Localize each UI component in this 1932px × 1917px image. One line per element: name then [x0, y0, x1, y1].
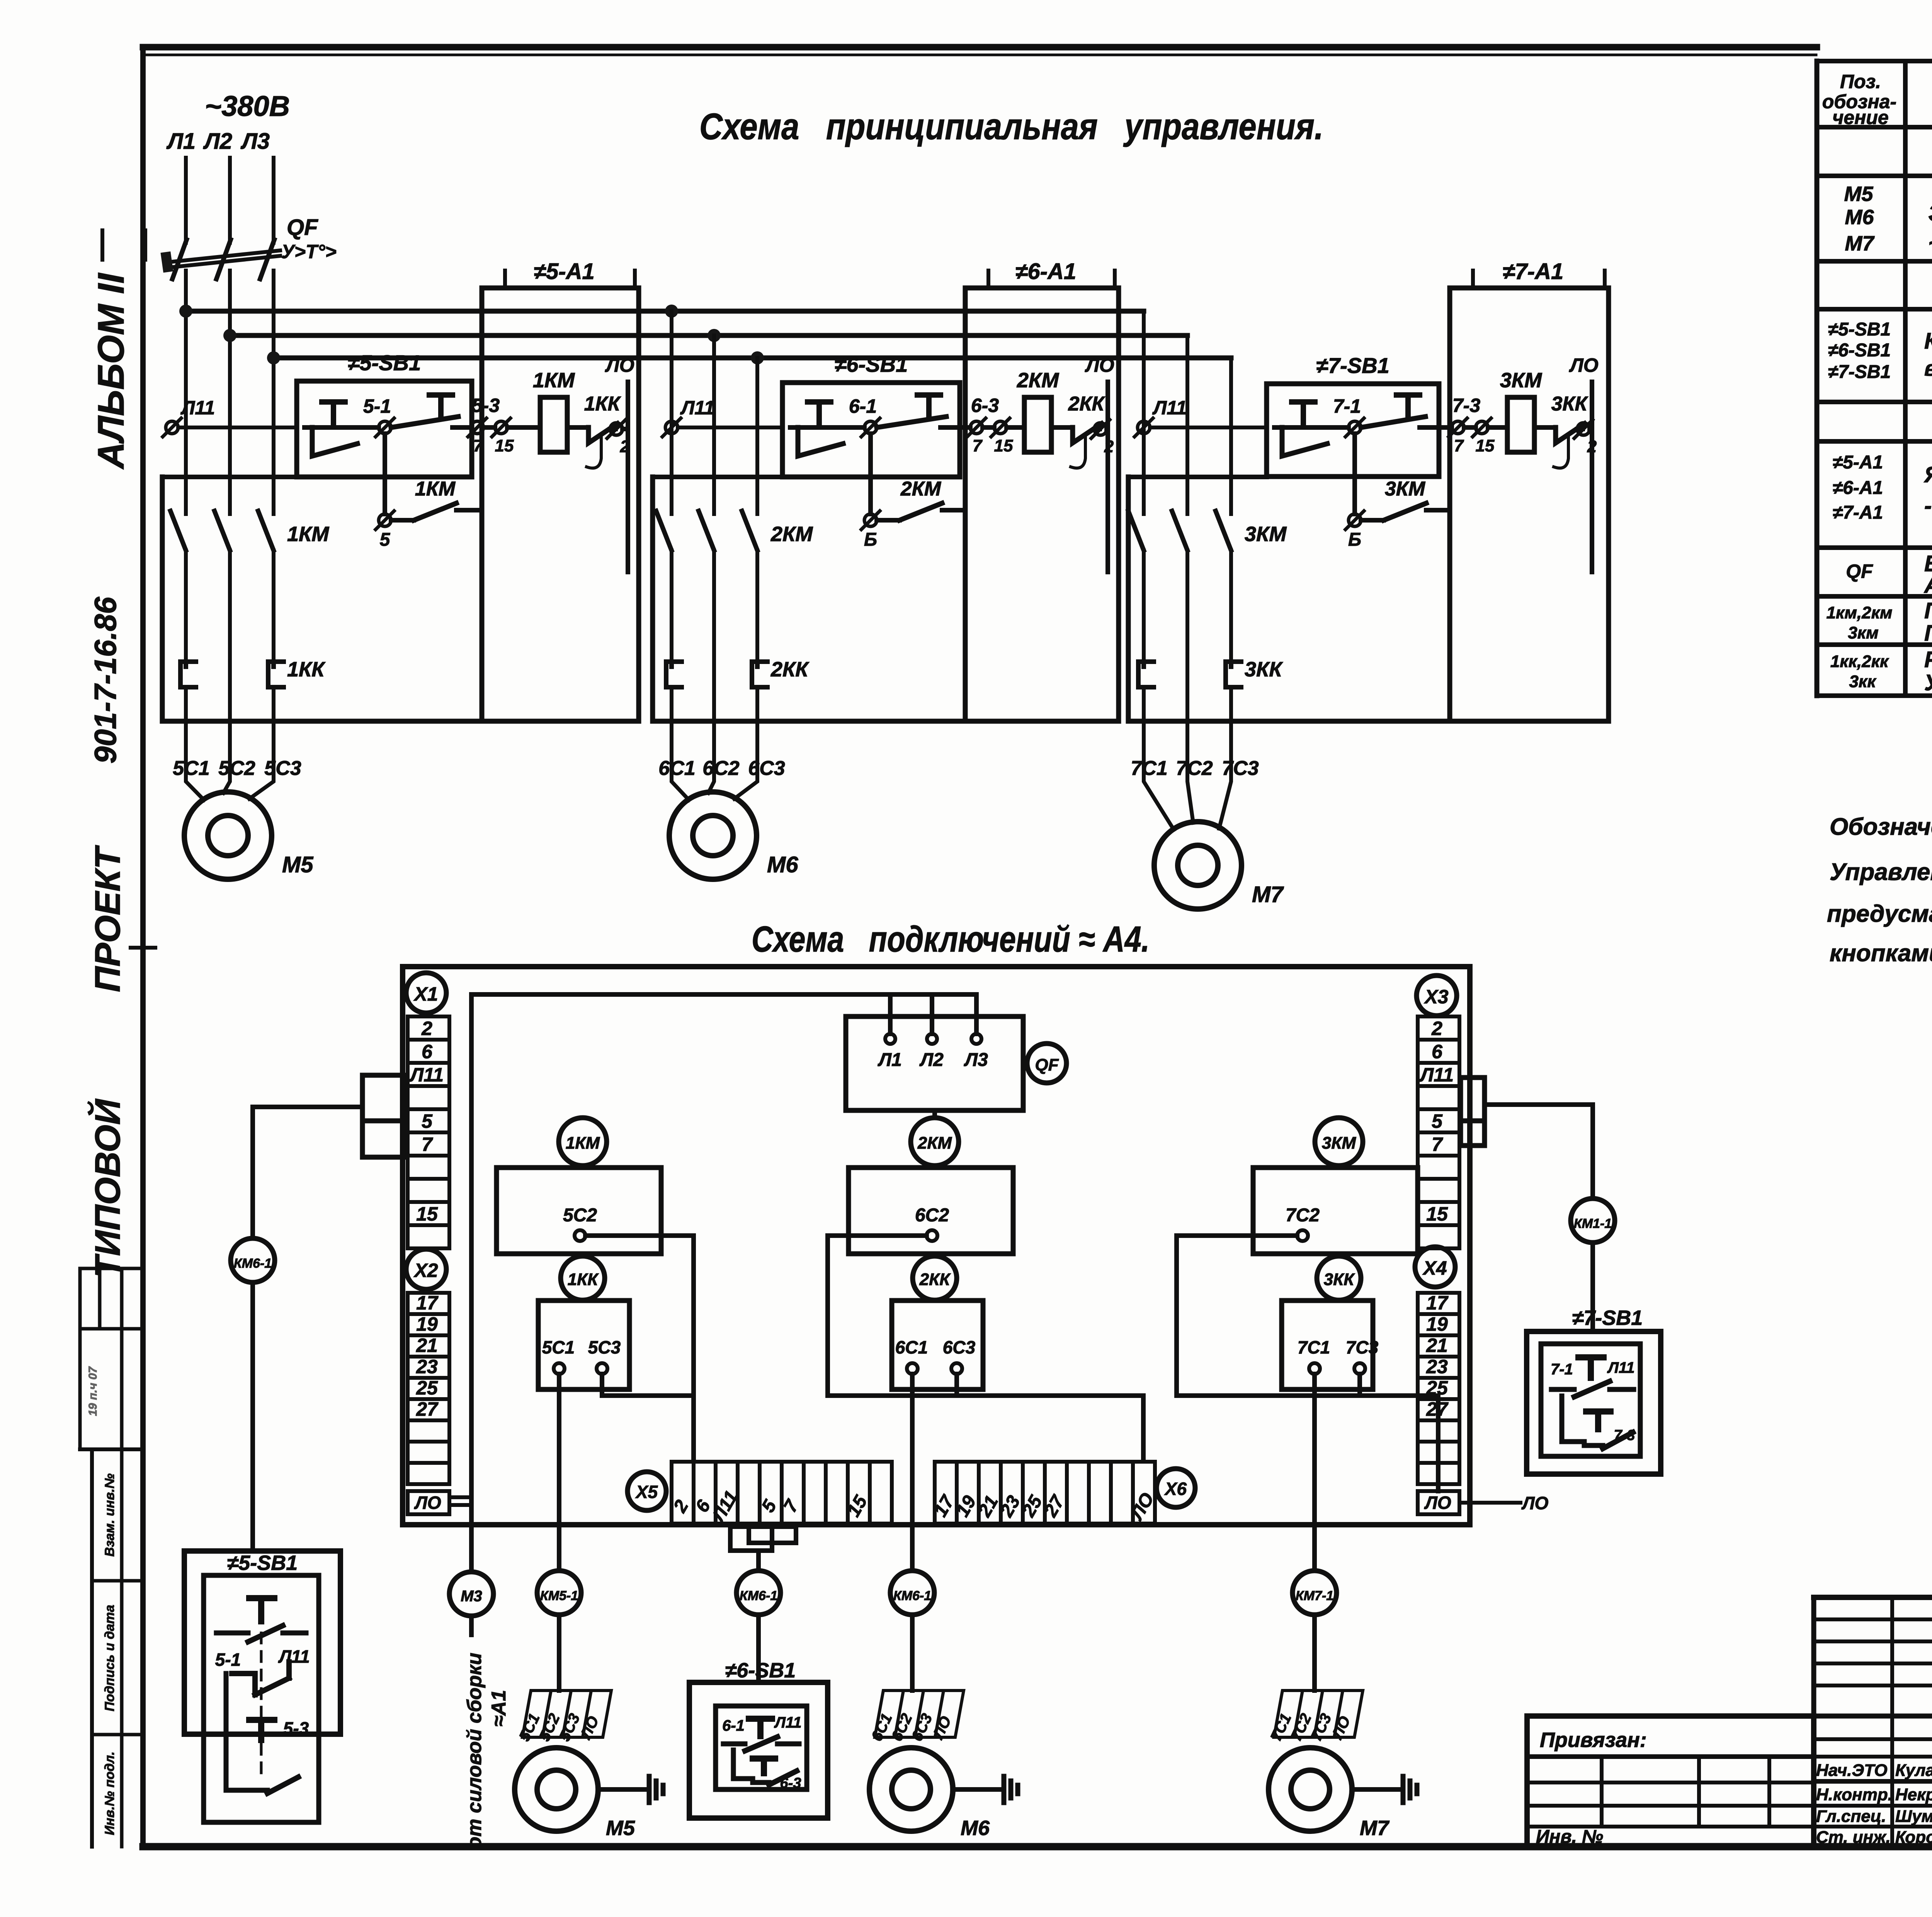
- svg-text:Ящик управления ≈ А4 тип ЯУ512: Ящик управления ≈ А4 тип ЯУ5122-: [1923, 462, 1932, 487]
- svg-text:25: 25: [416, 1377, 438, 1399]
- svg-text:7С1: 7С1: [1131, 757, 1167, 780]
- svg-text:1КМ: 1КМ: [287, 523, 329, 546]
- svg-text:Л11: Л11: [180, 397, 215, 419]
- terminals 5-3: [468, 418, 510, 437]
- bus L3: [274, 356, 1231, 361]
- svg-text:ПРОЕКТ: ПРОЕКТ: [88, 845, 128, 992]
- terminal 2: [1574, 420, 1593, 438]
- svg-text:ЛО: ЛО: [1085, 354, 1114, 376]
- svg-text:1КК: 1КК: [568, 1270, 599, 1289]
- svg-text:Поз.: Поз.: [1840, 71, 1881, 92]
- svg-text:7-3: 7-3: [1452, 395, 1480, 416]
- svg-text:Л11: Л11: [409, 1064, 444, 1086]
- svg-text:Пускатель магнитный: Пускатель магнитный: [1924, 598, 1932, 623]
- svg-text:7: 7: [1432, 1134, 1443, 1155]
- button station ≠7-SB1 (connection diagram): [1527, 1331, 1661, 1474]
- contactor main contacts 2КМ: [656, 511, 757, 662]
- contactor box 2КМ: [849, 1168, 1013, 1254]
- svg-text:~380В 0,25 кВт: ~380В 0,25 кВт: [1928, 230, 1932, 257]
- svg-text:КМ7-1: КМ7-1: [1296, 1588, 1333, 1603]
- spec row КК: [1830, 647, 1932, 695]
- wire pole1 group6 from bus: [670, 311, 673, 514]
- svg-text:КМ5-1: КМ5-1: [540, 1588, 578, 1603]
- connector bracket under X5: [730, 1527, 796, 1551]
- svg-text:КМ6-1: КМ6-1: [740, 1588, 777, 1603]
- svg-text:5С1: 5С1: [173, 757, 209, 780]
- svg-text:7С3: 7С3: [1222, 757, 1259, 780]
- svg-text:Х6: Х6: [1164, 1479, 1187, 1499]
- start button group7: [1361, 395, 1434, 427]
- svg-text:6С1: 6С1: [895, 1337, 928, 1357]
- svg-text:~380В: ~380В: [205, 90, 290, 122]
- svg-text:Нач.ЭТО: Нач.ЭТО: [1816, 1761, 1888, 1780]
- terminal 2: [607, 420, 628, 438]
- svg-text:5: 5: [422, 1110, 433, 1132]
- svg-text:≠6-SВ1: ≠6-SВ1: [725, 1659, 796, 1682]
- wire 7-1 to aux: [1352, 434, 1357, 514]
- breaker box QF (connection diagram): [846, 1016, 1023, 1110]
- title block: [1814, 1597, 1932, 1847]
- contactor main contacts 3КМ: [1128, 511, 1231, 662]
- svg-text:Б: Б: [1348, 529, 1361, 550]
- wire 5-1 to aux: [383, 434, 387, 514]
- connector plug X1: [362, 1075, 406, 1157]
- ground symbol М6: [953, 1776, 1018, 1803]
- marker 1КМ circle: [559, 1118, 607, 1166]
- svg-text:2КК: 2КК: [1068, 393, 1105, 415]
- svg-text:Схема принципиальная управ: Схема принципиальная управления.: [699, 106, 1323, 147]
- svg-text:КМ6-1: КМ6-1: [234, 1256, 272, 1271]
- node bus2-g6: [707, 329, 721, 342]
- spec row М5 М6 М7: [1844, 182, 1932, 257]
- cabinet outline ≠6-А1: [653, 288, 1119, 721]
- svg-text:ЛО: ЛО: [1521, 1493, 1549, 1513]
- aux contact 2КМ: [877, 503, 965, 520]
- svg-text:2: 2: [1431, 1018, 1442, 1039]
- svg-text:Подпись и дата: Подпись и дата: [102, 1605, 117, 1711]
- contactor main contacts 1КМ: [170, 511, 274, 662]
- wire КМ6-1 to 6-SB1: [756, 1615, 761, 1682]
- svg-text:Л2: Л2: [203, 129, 232, 154]
- button station box ≠5-SB1: [297, 381, 472, 477]
- svg-text:5С2: 5С2: [563, 1205, 597, 1226]
- svg-text:Ст. инж.: Ст. инж.: [1816, 1828, 1891, 1847]
- margin text ALBOM II: [90, 230, 145, 470]
- connector plug X3: [1461, 1078, 1485, 1146]
- svg-text:5С3: 5С3: [264, 757, 301, 780]
- cable marker КМ5-1: [537, 1571, 581, 1615]
- svg-text:QF: QF: [1846, 560, 1873, 582]
- svg-text:≠5-А1: ≠5-А1: [534, 259, 595, 284]
- svg-text:≠7-А1: ≠7-А1: [1503, 259, 1564, 284]
- svg-text:Схема подключений ≈ А4.: Схема подключений ≈ А4.: [752, 919, 1150, 959]
- svg-text:7-1: 7-1: [1551, 1361, 1573, 1378]
- wire 5С1 to КМ5-1 to М5: [557, 1374, 561, 1691]
- svg-text:6С2: 6С2: [915, 1205, 949, 1226]
- svg-text:3км: 3км: [1848, 623, 1878, 642]
- svg-text:Л3: Л3: [964, 1050, 988, 1070]
- control wire group6: [678, 426, 782, 429]
- svg-text:≠6-А1: ≠6-А1: [1833, 478, 1883, 498]
- svg-text:6: 6: [422, 1041, 433, 1062]
- start button group5: [391, 395, 467, 427]
- revision table grid: [1814, 1597, 1932, 1847]
- staff signatures: [1816, 1761, 1932, 1847]
- stop button 7 (conn): [1551, 1357, 1634, 1397]
- centering mark left: [131, 946, 155, 950]
- terminal strip X4: [1418, 1293, 1459, 1314]
- aux contact 1КМ: [391, 503, 482, 520]
- wire pole3 group7 from bus: [1229, 358, 1233, 514]
- spec row КМ: [1827, 598, 1932, 646]
- svg-text:АЛЬБОМ II: АЛЬБОМ II: [90, 272, 132, 470]
- svg-text:Реле тепловое ТРН-10;: Реле тепловое ТРН-10;: [1924, 647, 1932, 672]
- svg-text:5: 5: [1432, 1110, 1443, 1132]
- svg-text:Л1: Л1: [166, 129, 196, 154]
- svg-text:Л2: Л2: [919, 1050, 944, 1070]
- svg-text:Л11: Л11: [1607, 1359, 1634, 1376]
- thermal contact 3КК: [1534, 424, 1585, 468]
- wire pole2 group7 from bus: [1185, 335, 1189, 514]
- margin text TIPOVOY PROEKT 901-7-16.86: [87, 597, 128, 1278]
- cabinet А4 outline (connection diagram): [403, 967, 1470, 1525]
- svg-text:2КК: 2КК: [770, 658, 810, 681]
- terminal strip X3: [1418, 1016, 1459, 1040]
- svg-text:6С1: 6С1: [658, 757, 695, 780]
- svg-text:1КМ: 1КМ: [566, 1134, 600, 1153]
- terminal strip X6 circle: [1156, 1469, 1195, 1507]
- node bus1-L1: [179, 305, 192, 318]
- terminal 5С3: [588, 1337, 621, 1374]
- svg-text:Х2: Х2: [413, 1260, 438, 1281]
- svg-text:Шумилов: Шумилов: [1895, 1807, 1932, 1826]
- terminal ЛО cell right: [1418, 1491, 1459, 1514]
- svg-text:≠7-SВ1: ≠7-SВ1: [1572, 1306, 1643, 1330]
- svg-text:чение: чение: [1832, 107, 1889, 128]
- wire X3 plug to КМ7-1 right: [1485, 1105, 1593, 1199]
- wire L3 to bus: [272, 271, 276, 514]
- wire QF box to 2КМ: [932, 1110, 937, 1118]
- wire below М3: [469, 1616, 474, 1635]
- svg-text:21: 21: [1426, 1335, 1448, 1356]
- bottom contact 5 (conn): [226, 1674, 298, 1793]
- terminal strip X2: [408, 1293, 449, 1314]
- svg-text:7: 7: [422, 1134, 433, 1155]
- svg-text:7: 7: [973, 436, 983, 455]
- svg-text:7-3: 7-3: [1614, 1427, 1635, 1444]
- cable marker КМ6-1 (motor): [890, 1571, 934, 1615]
- terminal Л11 group6: [662, 418, 681, 437]
- bottom contact 6 (conn): [733, 1750, 797, 1785]
- wire КМ6-1 to 5-SB1: [250, 1282, 255, 1551]
- motor leads 5С1-5С3: [186, 758, 274, 800]
- terminals 7-3: [1439, 418, 1491, 437]
- contactor box 3КМ: [1253, 1168, 1418, 1254]
- svg-text:1КМ: 1КМ: [415, 478, 456, 500]
- motor М5 (connection diagram): [515, 1748, 598, 1831]
- motor М6 (connection diagram): [869, 1748, 953, 1831]
- wire feed to QF terminals: [471, 994, 976, 1034]
- svg-text:3КМ: 3КМ: [1245, 523, 1287, 546]
- wire bracket to КМ6-1 mid: [756, 1551, 761, 1571]
- svg-text:5С1: 5С1: [542, 1337, 575, 1357]
- thermal relay heaters 3КК: [1138, 662, 1241, 758]
- svg-text:М6: М6: [961, 1817, 990, 1840]
- left margin table: [80, 1268, 143, 1847]
- wire 5С2 to X5: [585, 1236, 694, 1461]
- motor М5: [184, 792, 272, 879]
- terminal 6С2: [915, 1205, 949, 1241]
- wire feed down to М3: [469, 994, 474, 1572]
- svg-text:М5: М5: [282, 852, 313, 877]
- svg-text:1кк,2кк: 1кк,2кк: [1830, 652, 1889, 671]
- terminal Б group6: [861, 511, 880, 529]
- terminal Л11 group7: [1134, 418, 1153, 437]
- svg-text:3КМ: 3КМ: [1385, 478, 1426, 500]
- svg-text:6-3: 6-3: [971, 395, 999, 416]
- svg-text:1КК: 1КК: [584, 393, 621, 415]
- svg-text:АП50-3МТ, Ур=4А: АП50-3МТ, Ур=4А: [1923, 573, 1932, 598]
- svg-text:6-3: 6-3: [780, 1775, 801, 1791]
- ground symbol М7: [1352, 1776, 1417, 1803]
- thermal contact 2КК: [1051, 424, 1102, 468]
- motor М6: [669, 792, 757, 879]
- thermal relay heaters 1КК: [180, 662, 284, 758]
- button station ≠6-SB1 (connection diagram): [689, 1682, 828, 1818]
- svg-text:6С3: 6С3: [943, 1337, 976, 1357]
- spec row QF: [1846, 551, 1932, 598]
- svg-text:≈А1: ≈А1: [488, 1690, 510, 1726]
- svg-text:Управление электродвигателя: Управление электродвигателями: [1830, 859, 1932, 885]
- svg-text:Кулагин: Кулагин: [1895, 1761, 1932, 1780]
- svg-text:Л11: Л11: [1419, 1064, 1454, 1086]
- svg-text:23: 23: [1426, 1356, 1448, 1377]
- stop button 5 (conn): [216, 1598, 306, 1642]
- net ЛО group5: [626, 382, 630, 572]
- svg-text:17: 17: [416, 1292, 439, 1314]
- wire pole3 group6 from bus: [755, 358, 759, 514]
- svg-text:6С2: 6С2: [702, 757, 739, 780]
- svg-text:5С3: 5С3: [588, 1337, 621, 1357]
- svg-text:вая, надписи„пуск“,„стоп“ПКЕ 2: вая, надписи„пуск“,„стоп“ПКЕ 222-2У3: [1924, 356, 1932, 380]
- control wire group5: [178, 426, 297, 429]
- terminal 6С1: [895, 1337, 928, 1374]
- wire phase L2 drop: [228, 158, 232, 243]
- svg-text:≠6-А1: ≠6-А1: [1015, 259, 1077, 284]
- svg-text:М6: М6: [1845, 206, 1874, 229]
- svg-text:Электродвигатель 4АЛ 63А4: Электродвигатель 4АЛ 63А4: [1928, 200, 1932, 226]
- cable marker КМ6-1 (left): [231, 1238, 275, 1282]
- terminal strip X6: [930, 1462, 1158, 1524]
- node bus3-g6: [751, 351, 764, 364]
- spec header: [1822, 71, 1932, 128]
- privyazan box: [1527, 1716, 1814, 1847]
- wire 7С3 join: [1357, 1374, 1362, 1396]
- svg-text:5: 5: [380, 529, 391, 550]
- svg-text:2КМ: 2КМ: [1017, 369, 1059, 392]
- spec row SB1: [1828, 319, 1932, 382]
- contact 6-1: [842, 418, 880, 437]
- svg-text:3КК: 3КК: [1245, 658, 1283, 681]
- terminal box М5: [516, 1691, 611, 1744]
- wire pole1 group7 from bus: [1142, 311, 1146, 514]
- thermal relay box 1КК: [538, 1301, 629, 1389]
- terminal Л1: [878, 1034, 902, 1070]
- node bus1-g6: [665, 305, 678, 318]
- terminal strip X2 connector circle: [406, 1249, 446, 1289]
- terminal 7С1: [1298, 1337, 1330, 1374]
- svg-text:Л11: Л11: [278, 1646, 310, 1667]
- svg-text:Некрасов: Некрасов: [1895, 1785, 1932, 1804]
- wire L1 to bus: [184, 271, 188, 514]
- thermal relay box 3КК: [1282, 1301, 1373, 1389]
- terminal 5С1: [542, 1337, 575, 1374]
- motor leads 7С1-7С3: [1144, 758, 1231, 830]
- svg-text:М5: М5: [606, 1817, 635, 1840]
- start button 7 (conn): [1586, 1411, 1611, 1429]
- cabinet outline ≠5-А1: [162, 288, 639, 721]
- cable marker КМ7-1: [1293, 1571, 1337, 1615]
- wire pole2 group6 from bus: [712, 335, 716, 514]
- svg-text:Обозначения по ГОСТ 2.710-8: Обозначения по ГОСТ 2.710-81.: [1830, 814, 1932, 840]
- stop button group7: [1274, 402, 1327, 456]
- svg-text:15: 15: [495, 436, 514, 455]
- label ≠6-А1: [988, 259, 1115, 286]
- control wire group7: [1150, 426, 1267, 429]
- svg-text:Привязан:: Привязан:: [1540, 1728, 1647, 1752]
- svg-text:≠7-SВ1: ≠7-SВ1: [1316, 353, 1389, 378]
- bus L2: [230, 333, 1187, 338]
- svg-text:5-3: 5-3: [472, 395, 500, 416]
- svg-text:≠5-SВ1: ≠5-SВ1: [348, 351, 421, 375]
- motor М7: [1154, 822, 1242, 909]
- svg-text:Х4: Х4: [1422, 1257, 1447, 1279]
- svg-text:15: 15: [994, 436, 1013, 455]
- svg-text:6: 6: [1432, 1041, 1443, 1062]
- svg-text:7-1: 7-1: [1333, 395, 1361, 417]
- wire 6С3 join: [954, 1374, 959, 1396]
- svg-text:Гл.спец.: Гл.спец.: [1816, 1807, 1886, 1826]
- svg-text:≠7-А1: ≠7-А1: [1833, 502, 1883, 523]
- svg-text:QF: QF: [287, 215, 318, 240]
- svg-text:6-1: 6-1: [849, 395, 877, 417]
- svg-text:М5: М5: [1844, 182, 1873, 206]
- svg-text:2КМ: 2КМ: [917, 1134, 952, 1153]
- terminal Б group7: [1345, 511, 1364, 529]
- contactor coil 2КМ: [1007, 397, 1051, 452]
- svg-text:ПМЕ-111: ПМЕ-111: [1924, 621, 1932, 646]
- svg-text:Н.контр.: Н.контр.: [1816, 1785, 1893, 1804]
- svg-text:ЛО: ЛО: [1569, 354, 1598, 376]
- svg-text:Ун.э. = 1,25А: Ун.э. = 1,25А: [1924, 670, 1932, 695]
- terminal Л3: [964, 1034, 988, 1070]
- svg-text:Королёва: Королёва: [1895, 1828, 1932, 1847]
- svg-text:М6: М6: [767, 852, 798, 877]
- svg-text:-0362Д Ур=4А Ун=1,25А: -0362Д Ур=4А Ун=1,25А: [1924, 493, 1932, 518]
- svg-text:Л3: Л3: [240, 129, 270, 154]
- bus L1: [186, 309, 1144, 314]
- terminal strip X5: [669, 1462, 892, 1526]
- spec row A1: [1833, 452, 1932, 523]
- marker 1КК circle: [561, 1256, 605, 1300]
- svg-text:5-3: 5-3: [283, 1718, 309, 1738]
- svg-text:ТИПОВОЙ: ТИПОВОЙ: [87, 1098, 128, 1278]
- wire 6С2 route: [828, 1236, 1143, 1461]
- svg-text:5-1: 5-1: [363, 395, 391, 417]
- terminal box М6: [868, 1691, 964, 1744]
- contact 7-1: [1327, 418, 1364, 437]
- marker 3КК circle: [1317, 1256, 1361, 1300]
- svg-text:6С3: 6С3: [748, 757, 785, 780]
- contactor coil 3КМ: [1488, 397, 1534, 452]
- svg-text:Х1: Х1: [413, 983, 438, 1005]
- wire X1 plug to КМ6-1: [253, 1107, 362, 1238]
- terminal Л11 group5: [163, 418, 181, 437]
- svg-text:≠5-SВ1: ≠5-SВ1: [1828, 319, 1891, 340]
- wire L2 to bus: [228, 271, 232, 514]
- svg-text:6-1: 6-1: [722, 1717, 745, 1734]
- svg-text:7С1: 7С1: [1298, 1337, 1330, 1357]
- start button 6 (conn): [753, 1759, 775, 1773]
- svg-text:901-7-16.86: 901-7-16.86: [88, 597, 122, 764]
- svg-text:М7: М7: [1360, 1817, 1390, 1840]
- svg-text:от силовой сборки: от силовой сборки: [463, 1653, 486, 1849]
- terminal 5 group5: [376, 511, 394, 529]
- svg-text:3КК: 3КК: [1551, 393, 1588, 415]
- aux contact 3КМ: [1361, 503, 1450, 520]
- circuit breaker QF: [161, 240, 280, 279]
- wire phase L1 drop: [184, 158, 188, 243]
- label ≠7-А1: [1473, 259, 1605, 286]
- wire 5С3 join: [602, 1374, 694, 1396]
- svg-text:КМ6-1: КМ6-1: [893, 1588, 931, 1603]
- stop button group5: [304, 402, 357, 456]
- terminal strip X1: [408, 1016, 449, 1040]
- svg-text:2КК: 2КК: [919, 1270, 951, 1289]
- contact 5-1: [357, 418, 394, 437]
- net ЛО group6: [1105, 382, 1110, 572]
- svg-text:15: 15: [1476, 436, 1495, 455]
- svg-text:QF: QF: [1035, 1056, 1059, 1074]
- svg-text:7С2: 7С2: [1176, 757, 1213, 780]
- svg-text:Х3: Х3: [1423, 986, 1448, 1008]
- stop button group6: [790, 402, 843, 456]
- cable marker КМ1-1 (right): [1571, 1199, 1615, 1243]
- svg-text:15: 15: [1426, 1203, 1448, 1225]
- marker 3КМ circle: [1315, 1118, 1363, 1166]
- terminal strip X5 circle: [628, 1472, 666, 1510]
- thermal relay box 2КК: [892, 1301, 983, 1389]
- svg-text:5С2: 5С2: [218, 757, 255, 780]
- terminal Л2: [919, 1034, 944, 1070]
- terminal 7С2: [1286, 1205, 1320, 1241]
- node bus3-L3: [267, 351, 280, 364]
- interlock contact 5 (conn): [232, 1662, 289, 1695]
- svg-text:ЛО: ЛО: [605, 354, 634, 376]
- svg-text:Л11: Л11: [774, 1714, 801, 1731]
- svg-text:Кнопка управления двухштифто: Кнопка управления двухштифто-: [1924, 329, 1932, 354]
- svg-text:Л11: Л11: [1152, 397, 1187, 419]
- svg-text:19: 19: [1426, 1313, 1448, 1335]
- svg-text:7: 7: [1454, 436, 1464, 455]
- svg-text:3КМ: 3КМ: [1322, 1134, 1357, 1153]
- start button group6: [877, 395, 955, 427]
- svg-text:М7: М7: [1845, 232, 1875, 255]
- svg-text:Х5: Х5: [635, 1482, 658, 1502]
- svg-text:19 п.ч 07: 19 п.ч 07: [87, 1366, 99, 1416]
- svg-text:1км,2км: 1км,2км: [1827, 603, 1893, 622]
- svg-text:≠5-SВ1: ≠5-SВ1: [227, 1551, 298, 1575]
